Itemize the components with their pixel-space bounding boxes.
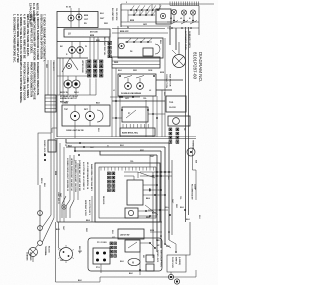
svg-text:BLU: BLU	[165, 207, 170, 209]
svg-text:LIMIT SW 21: LIMIT SW 21	[57, 192, 59, 205]
svg-text:BAKE BRN CONV FAN RLY: BAKE BRN CONV FAN RLY	[90, 164, 93, 191]
svg-text:VIO: VIO	[112, 237, 116, 239]
svg-text:BRN: BRN	[84, 15, 89, 17]
svg-text:GROUND: GROUND	[29, 252, 31, 261]
svg-text:(LOWER): (LOWER)	[178, 257, 180, 265]
svg-text:DOOR LOCK: DOOR LOCK	[171, 257, 173, 269]
svg-text:A1 LT/TB SEL HI LO MED 12: A1 LT/TB SEL HI LO MED 12	[82, 162, 85, 191]
svg-text:W: W	[85, 46, 87, 48]
svg-text:UPPER OVEN LIGHT SW WHT 34: UPPER OVEN LIGHT SW WHT 34	[70, 158, 73, 191]
svg-text:ORN: ORN	[148, 70, 153, 72]
svg-text:S1 S2: S1 S2	[66, 7, 71, 9]
svg-text:BLK: BLK	[159, 40, 161, 45]
svg-text:HI LO MED BAKE BROIL 14: HI LO MED BAKE BROIL 14	[86, 162, 89, 190]
svg-text:BLK WHT RED: BLK WHT RED	[111, 8, 113, 21]
svg-text:BLK: BLK	[118, 70, 123, 72]
svg-text:GRY ORN BRN PUR: GRY ORN BRN PUR	[108, 37, 110, 56]
svg-text:M: M	[132, 261, 134, 265]
svg-text:RED: RED	[85, 228, 87, 233]
svg-text:RED: RED	[175, 204, 177, 209]
svg-text:OVEN LIGHT SW 3W: OVEN LIGHT SW 3W	[66, 130, 84, 132]
svg-text:CLOCK: CLOCK	[169, 107, 176, 109]
svg-text:BLK: BLK	[111, 230, 113, 235]
svg-text:RED: RED	[133, 70, 138, 72]
svg-text:FLUORESCENT: FLUORESCENT	[191, 184, 193, 200]
svg-text:RED: RED	[114, 62, 119, 64]
svg-text:BLK: BLK	[120, 261, 125, 263]
svg-text:L1: L1	[113, 90, 115, 92]
svg-text:ANT 20B: ANT 20B	[90, 31, 98, 34]
svg-text:P13 CONN: P13 CONN	[97, 242, 107, 244]
svg-text:SWITCH: SWITCH	[175, 257, 177, 265]
svg-text:CHASSIS: CHASSIS	[26, 252, 29, 261]
svg-text:BLK: BLK	[96, 103, 101, 105]
svg-text:BLK: BLK	[97, 128, 99, 133]
svg-text:LOWER OVEN LIGHT SW BRN 22: LOWER OVEN LIGHT SW BRN 22	[66, 158, 68, 192]
svg-text:RED 4: RED 4	[40, 178, 43, 183]
svg-text:RELAYS: RELAYS	[102, 196, 105, 205]
svg-text:RED: RED	[64, 103, 69, 105]
svg-text:DOUBLE LINE BREAK: DOUBLE LINE BREAK	[121, 92, 142, 95]
svg-text:TOD: TOD	[169, 102, 174, 104]
svg-text:BLK: BLK	[186, 219, 191, 221]
svg-text:BRN GRY: BRN GRY	[120, 31, 129, 33]
svg-text:7. CHECK GROUND FOR CONTINUITY: 7. CHECK GROUND FOR CONTINUITY.	[43, 14, 47, 62]
svg-text:BLK: BLK	[163, 92, 165, 97]
svg-text:RED: RED	[166, 246, 171, 248]
svg-text:P6: P6	[106, 145, 108, 147]
svg-text:RED: RED	[104, 23, 109, 25]
svg-text:BRN: BRN	[54, 171, 56, 176]
svg-text:BAKE BROIL REL: BAKE BROIL REL	[122, 132, 139, 135]
svg-text:UPPER OVEN: UPPER OVEN	[81, 60, 83, 73]
svg-text:A1 LT/TB GRY 6: A1 LT/TB GRY 6	[88, 200, 91, 216]
svg-text:W: W	[127, 27, 129, 29]
svg-text:LV: LV	[68, 34, 71, 36]
svg-text:BLK WHT RED YEL: BLK WHT RED YEL	[103, 37, 105, 56]
svg-text:DOOR LOCK: DOOR LOCK	[156, 250, 158, 263]
svg-text:DIAGRAM NO.: DIAGRAM NO.	[198, 52, 203, 82]
svg-text:L2: L2	[149, 90, 151, 92]
svg-text:P6: P6	[65, 145, 67, 147]
svg-text:BLK: BLK	[167, 176, 169, 181]
svg-text:RED: RED	[45, 64, 47, 69]
svg-text:L1: L1	[170, 18, 172, 20]
svg-text:RED: RED	[146, 217, 151, 219]
svg-text:BLK WHT: BLK WHT	[52, 62, 54, 72]
svg-text:P8: P8	[183, 128, 185, 130]
svg-text:BRN: BRN	[130, 20, 135, 22]
svg-text:BLK: BLK	[180, 207, 185, 209]
svg-text:BRN: BRN	[160, 72, 165, 74]
svg-text:BLK: BLK	[43, 183, 45, 188]
svg-text:SWITCH (UPPER): SWITCH (UPPER)	[160, 250, 162, 267]
svg-text:SURFACE UNIT RT: SURFACE UNIT RT	[60, 97, 78, 100]
svg-text:BLK: BLK	[198, 215, 200, 220]
svg-text:P7: P7	[128, 113, 130, 115]
svg-text:BRN: BRN	[150, 230, 155, 232]
svg-text:RED: RED	[140, 150, 145, 152]
svg-text:(LOWER) WHT 22 LIMIT SW NO: (LOWER) WHT 22 LIMIT SW NO	[78, 160, 80, 191]
svg-text:THERMAL: THERMAL	[192, 140, 195, 151]
svg-text:CONVECTION: CONVECTION	[165, 74, 167, 88]
svg-text:LATCH SW: LATCH SW	[120, 234, 130, 237]
svg-text:BRN WHT 4 RED: BRN WHT 4 RED	[84, 200, 87, 216]
svg-text:BK 12 W: BK 12 W	[60, 92, 68, 94]
svg-text:BLK: BLK	[86, 220, 91, 222]
svg-text:FAN MOTOR: FAN MOTOR	[169, 74, 172, 87]
svg-text:BLK: BLK	[100, 13, 105, 15]
svg-text:YEL GRY ORN: YEL GRY ORN	[115, 8, 117, 21]
svg-text:ELEMENT BRN: ELEMENT BRN	[85, 60, 87, 74]
svg-text:BLU: BLU	[146, 198, 151, 200]
svg-text:3: 3	[126, 2, 127, 4]
svg-text:BLK: BLK	[68, 146, 73, 148]
svg-text:BLK: BLK	[120, 145, 125, 147]
svg-text:BLOCK: BLOCK	[48, 246, 50, 253]
svg-text:8101P287-60: 8101P287-60	[193, 52, 198, 80]
svg-text:(UPPER) BRN 34 LIMIT SW COM: (UPPER) BRN 34 LIMIT SW COM	[74, 160, 77, 192]
svg-text:SW: SW	[195, 160, 197, 163]
svg-text:TERMINAL: TERMINAL	[44, 246, 47, 257]
svg-text:BRN: BRN	[90, 35, 95, 37]
svg-text:DANGEROUS OPERATION.: DANGEROUS OPERATION.	[36, 62, 40, 96]
svg-text:L2: L2	[180, 18, 182, 20]
